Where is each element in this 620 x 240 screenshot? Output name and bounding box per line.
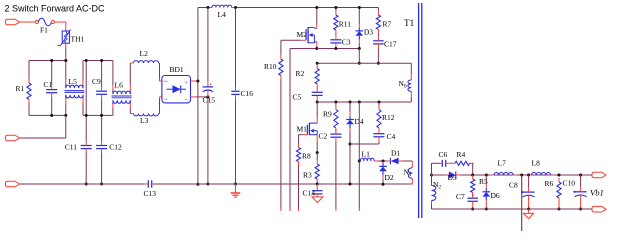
svg-text:+: + [209,82,212,88]
svg-text:C13: C13 [144,189,157,198]
svg-text:L8: L8 [532,159,541,168]
svg-text:L5: L5 [69,77,78,86]
svg-text:R3: R3 [303,171,312,180]
svg-text:C4: C4 [387,132,396,141]
svg-text:L7: L7 [498,159,507,168]
svg-text:D2: D2 [385,173,394,182]
svg-text:+: + [184,80,188,87]
svg-text:C12: C12 [109,143,122,152]
svg-text:2 Switch Forward AC-DC: 2 Switch Forward AC-DC [5,4,106,14]
svg-text:C14: C14 [303,188,316,197]
svg-text:TH1: TH1 [71,35,85,44]
svg-text:D1: D1 [391,149,400,158]
svg-text:C5: C5 [293,93,302,102]
svg-text:R6: R6 [545,179,554,188]
svg-text:R11: R11 [339,20,351,29]
svg-text:C11: C11 [65,143,77,152]
svg-text:Vb1: Vb1 [590,188,604,198]
svg-text:M2: M2 [297,30,308,39]
svg-text:C3: C3 [342,38,351,47]
svg-text:R12: R12 [382,113,395,122]
svg-text:R10: R10 [264,62,277,71]
svg-text:F1: F1 [40,25,48,34]
svg-text:~: ~ [164,96,168,104]
svg-text:C10: C10 [563,179,576,188]
svg-text:C2: C2 [319,132,328,141]
svg-text:D3: D3 [364,28,373,37]
svg-text:~: ~ [164,78,168,86]
svg-text:R7: R7 [383,20,392,29]
svg-text:L1: L1 [362,150,371,159]
svg-text:C15: C15 [203,96,216,105]
svg-text:C9: C9 [92,77,101,86]
svg-text:C17: C17 [384,40,397,49]
svg-text:C6: C6 [439,150,448,159]
svg-text:L6: L6 [115,81,124,90]
svg-text:BD1: BD1 [170,65,184,74]
svg-text:L3: L3 [140,116,149,125]
svg-text:R4: R4 [457,150,466,159]
svg-text:C16: C16 [241,89,254,98]
svg-text:C7: C7 [456,192,465,201]
svg-text:R1: R1 [16,84,25,93]
svg-text:D5: D5 [448,173,457,182]
svg-text:D6: D6 [491,191,500,200]
svg-text:R8: R8 [302,152,311,161]
svg-text:C1: C1 [44,80,53,89]
svg-text:M1: M1 [297,125,308,134]
svg-text:L2: L2 [140,49,149,58]
svg-text:R2: R2 [296,69,305,78]
svg-text:T1: T1 [404,18,415,28]
svg-text:L4: L4 [218,10,227,19]
svg-text:R9: R9 [323,110,332,119]
svg-text:C8: C8 [509,181,518,190]
